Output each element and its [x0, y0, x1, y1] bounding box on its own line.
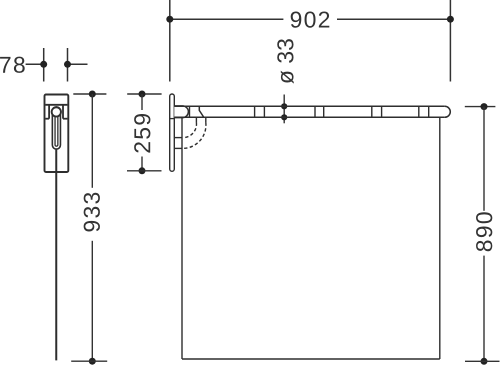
fold arc outer dashed	[183, 123, 206, 149]
dimension 78 text	[0, 57, 25, 73]
rail joint line I	[428, 106, 430, 117]
rail joint line A	[189, 106, 191, 117]
panel left edge	[181, 118, 183, 359]
dimension 259 line lower segment	[141, 157, 143, 171]
dimension 933 bottom dot	[89, 358, 96, 365]
pivot stub inner	[195, 117, 197, 122]
dimension 78 extension line left	[43, 48, 45, 82]
dimension 78 dot left	[40, 61, 47, 68]
dimension 890 bottom dot	[481, 358, 488, 365]
dimension 902 line right segment	[337, 18, 450, 20]
folded stop bracket top line	[174, 137, 182, 139]
dimension diameter 33 text	[277, 39, 293, 84]
folded stop bracket bottom line	[174, 147, 182, 149]
bracket pivot circle	[52, 107, 61, 116]
rail joint line H	[418, 106, 420, 117]
dimension 902 dot right	[447, 16, 454, 23]
panel bottom edge	[182, 358, 440, 360]
rail end cap	[445, 106, 451, 117]
dimension 933 text	[84, 193, 100, 232]
rail joint line D	[314, 106, 316, 117]
dimension 78 dot right	[64, 61, 71, 68]
dimension 259 bottom tick	[127, 170, 162, 172]
rail joint line E	[323, 106, 325, 117]
fold arc inner dashed	[183, 123, 196, 138]
rail bottom line	[174, 116, 445, 118]
dimension 902 text	[291, 11, 330, 27]
dimension 890 line lower segment	[483, 256, 485, 362]
dimension 890 line upper segment	[483, 107, 485, 211]
dimension 890 bottom tick	[465, 360, 500, 362]
rail joint line G	[381, 106, 383, 117]
dimension 890 top dot	[481, 103, 488, 110]
dimension diameter 33 dot top	[281, 103, 287, 109]
rail joint line B	[254, 106, 256, 117]
dimension diameter 33 dot bottom	[281, 114, 287, 120]
dimension 259 top dot	[139, 91, 146, 98]
dimension 78 leader left	[26, 63, 44, 65]
panel right edge	[439, 117, 441, 359]
bracket inner top line	[46, 104, 68, 106]
rail joint line F	[371, 106, 373, 117]
bracket inner slot	[55, 109, 58, 147]
side view wall plate	[170, 94, 175, 171]
dimension 902 extension line left	[169, 0, 171, 82]
dimension 259 text	[134, 114, 150, 153]
hinge housing	[174, 106, 188, 118]
dimension 933 bottom tick	[71, 360, 107, 362]
front view bracket outline	[45, 95, 69, 173]
dimension 902 extension line right	[449, 0, 451, 82]
dimension 78 extension line right	[67, 48, 69, 82]
dimension 890 text	[476, 212, 492, 251]
dimension 259 top tick	[127, 93, 161, 95]
dimension 933 top tick	[73, 93, 106, 95]
dimension 890 top tick	[465, 106, 496, 108]
dimension 902 dot left	[166, 16, 173, 23]
front view tube line	[55, 149, 57, 361]
pivot stub outer	[205, 117, 207, 122]
rail joint line C	[263, 106, 265, 117]
bracket band left column	[48, 105, 50, 119]
dimension 259 bottom dot	[139, 167, 146, 174]
dimension 933 line lower segment	[91, 241, 93, 361]
dimension 78 leader right	[68, 63, 88, 65]
dimension 259 line upper segment	[141, 94, 143, 110]
dimension 933 top dot	[89, 91, 96, 98]
rail top line	[174, 105, 445, 107]
dimension 933 line upper segment	[91, 94, 93, 188]
bracket band bottom right segment	[63, 118, 67, 120]
bracket band right column	[62, 105, 64, 119]
dimension diameter 33 leader line	[283, 95, 285, 124]
bracket outer slot capsule	[52, 107, 60, 149]
bracket band bottom left segment	[46, 118, 50, 120]
wall plate seam line	[170, 118, 175, 120]
dimension 902 line left segment	[170, 18, 284, 20]
hinge gusset	[199, 106, 203, 117]
